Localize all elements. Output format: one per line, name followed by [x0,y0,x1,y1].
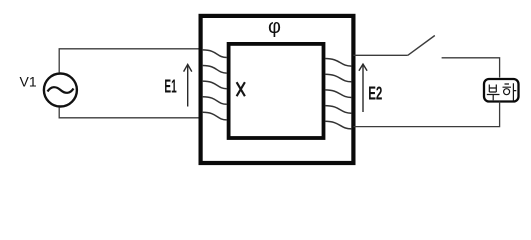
wire top-right [353,54,407,56]
AC source V1 [44,74,77,107]
svg-text:φ: φ [268,16,281,38]
svg-text:E2: E2 [368,82,382,103]
svg-text:E1: E1 [164,76,176,97]
load box [484,79,519,102]
secondary winding [325,59,352,129]
wire bottom-left [59,108,200,118]
svg-text:V1: V1 [20,74,37,90]
transformer core outer [201,16,354,163]
arrow E2 [359,64,367,112]
transformer core window [229,44,324,138]
arrow E1 [184,64,192,106]
load label 부하 (hangul drawn) [487,83,517,100]
wire top-left [59,49,200,73]
primary winding [203,50,227,120]
label X [237,82,245,96]
wire switch contact to load [442,58,500,78]
switch blade [408,36,435,56]
wire bottom-right [353,102,499,127]
